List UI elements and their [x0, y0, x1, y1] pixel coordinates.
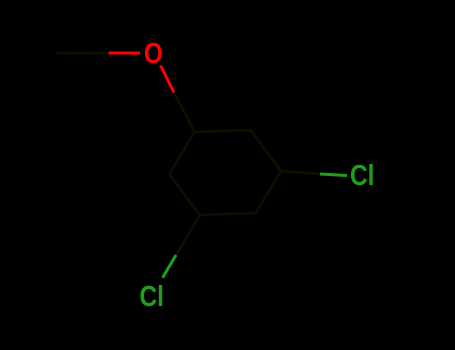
bond O-C1 (oxygen half, red)	[161, 66, 175, 93]
svg-text:O: O	[144, 37, 163, 69]
bond C3-Cl (chlorine half, green)	[320, 174, 347, 176]
bond C5-Cl (carbon half)	[176, 215, 200, 255]
bond O-C1 (carbon half)	[174, 93, 195, 133]
bond C3-Cl (carbon half)	[281, 171, 320, 174]
svg-text:Cl: Cl	[350, 159, 374, 191]
ring bond C1-C2	[195, 130, 251, 132]
bond CH3-O (carbon half)	[57, 52, 109, 55]
bond CH3-O (oxygen half, red)	[109, 52, 141, 55]
ring bond C5-C6	[169, 175, 200, 216]
ring bond C3-C4	[256, 171, 281, 213]
ring bond C2-C3	[250, 130, 281, 171]
ring bond C6-C1	[169, 132, 194, 175]
svg-text:Cl: Cl	[140, 280, 164, 312]
bond C5-Cl (chlorine half, green)	[163, 255, 176, 278]
ring bond C4-C5	[200, 213, 256, 215]
